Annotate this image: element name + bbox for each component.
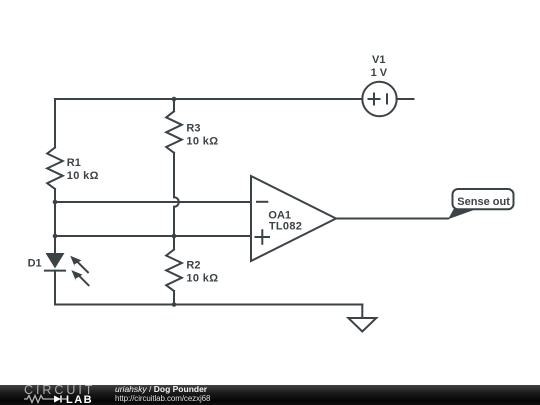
- svg-text:OA1: OA1: [268, 209, 291, 221]
- svg-text:10 kΩ: 10 kΩ: [186, 273, 218, 285]
- svg-text:D1: D1: [28, 257, 42, 269]
- svg-text:V1: V1: [372, 54, 385, 66]
- svg-text:R3: R3: [186, 123, 200, 135]
- svg-text:R2: R2: [186, 259, 200, 271]
- svg-text:10 kΩ: 10 kΩ: [186, 136, 218, 148]
- svg-text:TL082: TL082: [269, 221, 302, 233]
- svg-text:10 kΩ: 10 kΩ: [67, 170, 99, 182]
- svg-text:1 V: 1 V: [371, 67, 388, 79]
- svg-text:R1: R1: [67, 157, 81, 169]
- svg-text:Sense out: Sense out: [457, 196, 510, 208]
